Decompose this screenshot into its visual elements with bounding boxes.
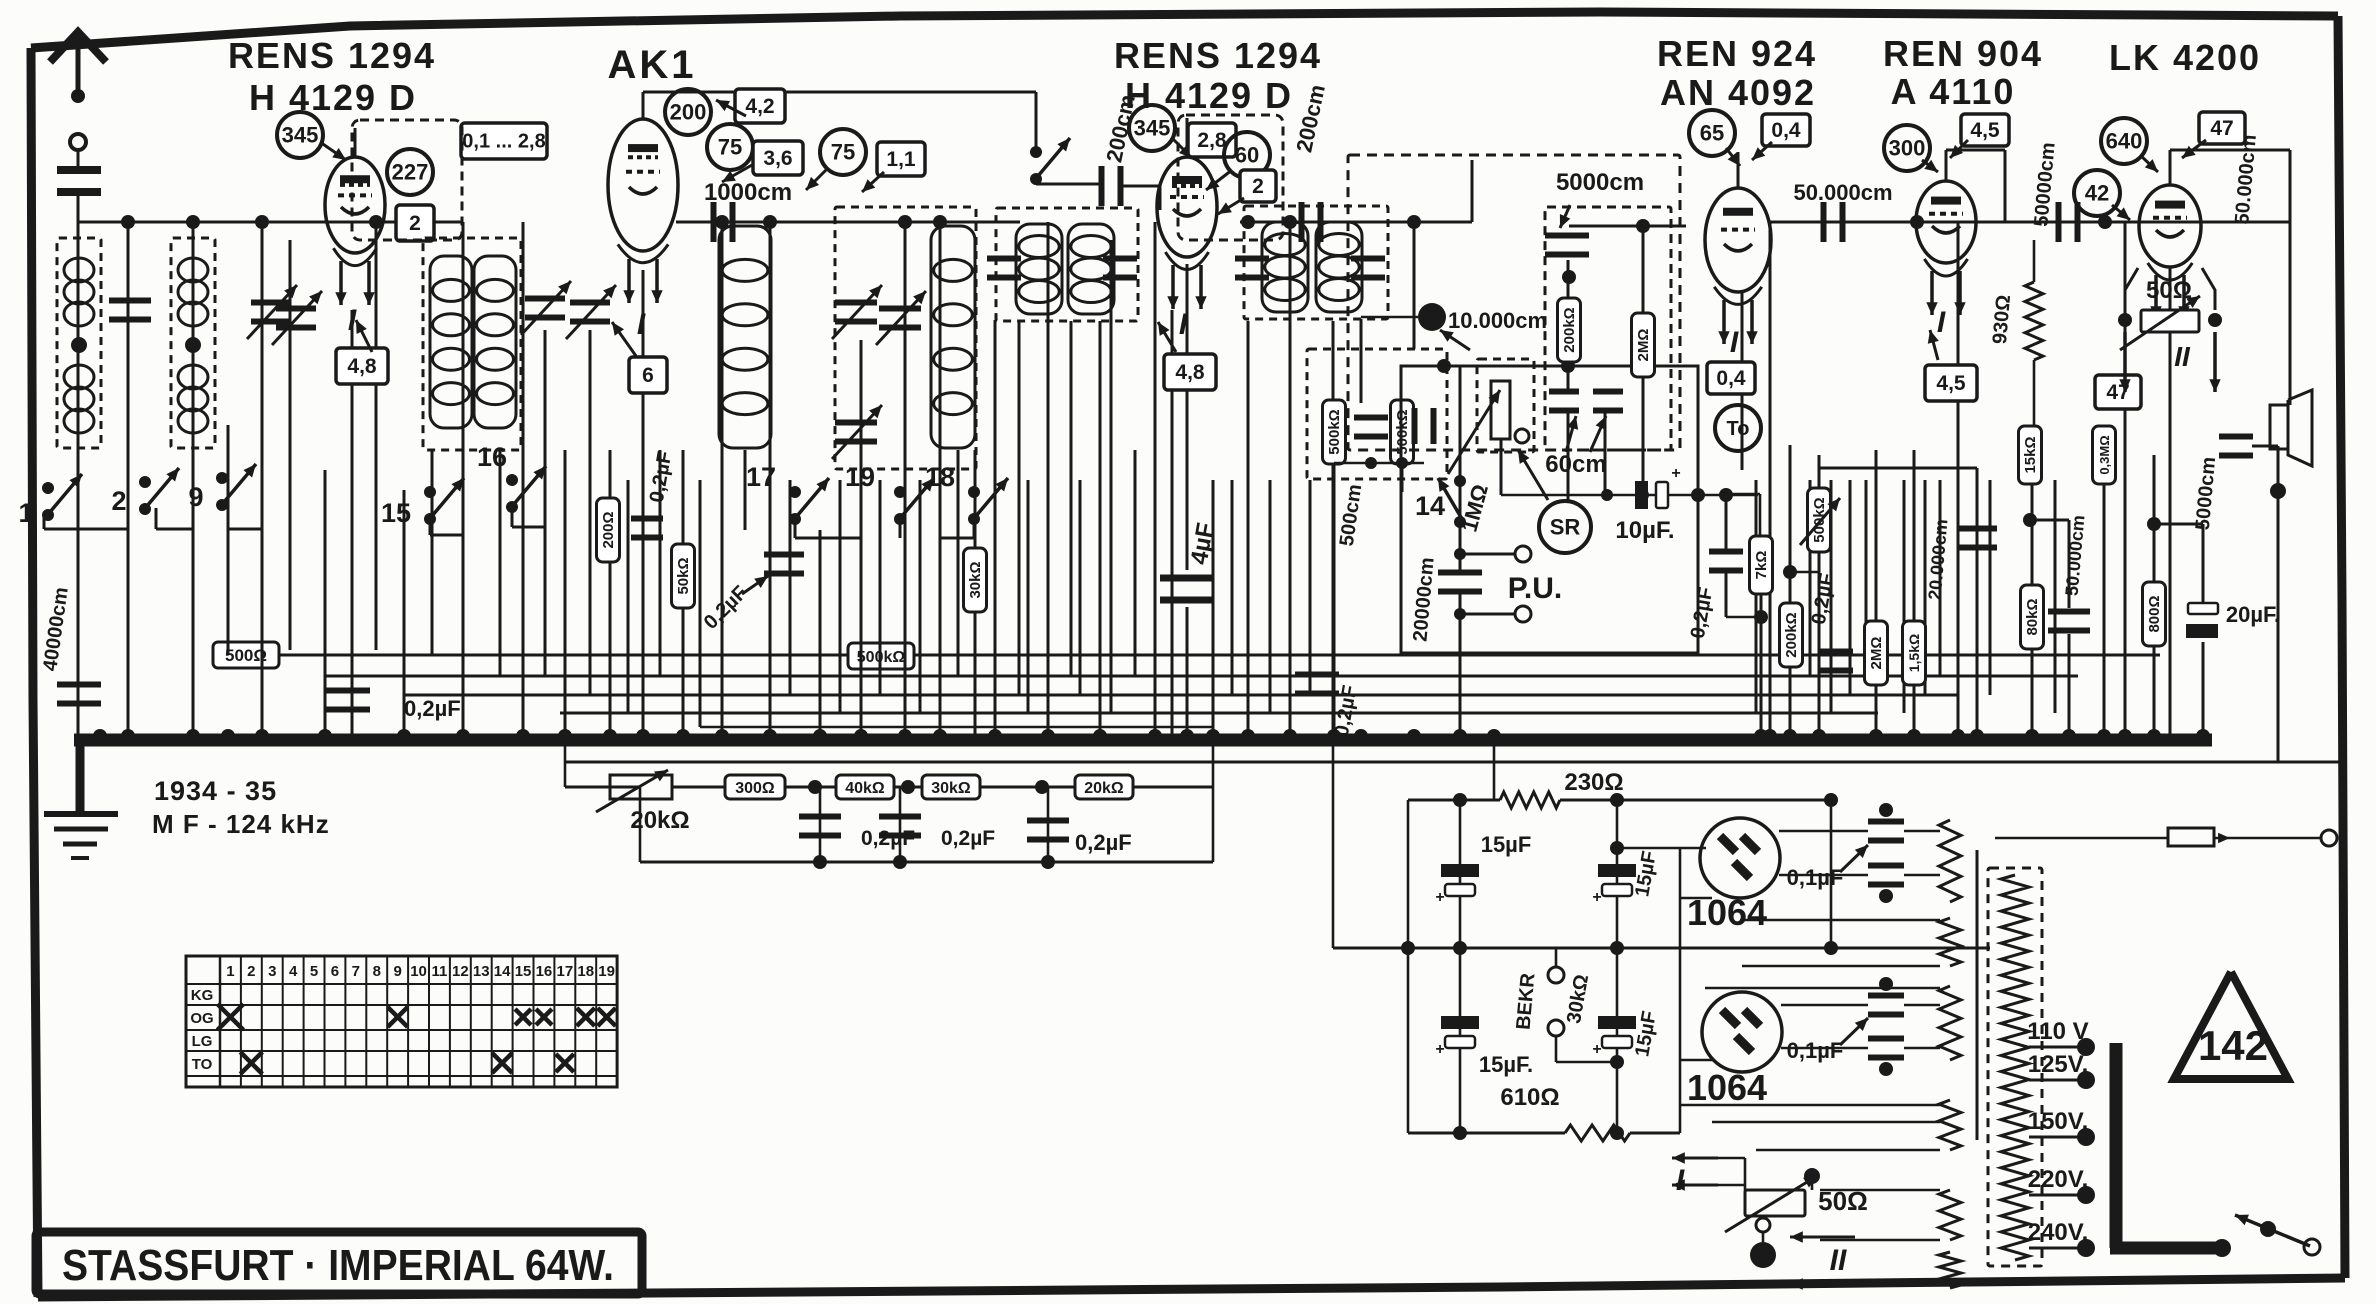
svg-text:+: + <box>1592 1041 1601 1058</box>
svg-text:4,5: 4,5 <box>1936 372 1966 395</box>
svg-text:30kΩ: 30kΩ <box>967 561 984 598</box>
svg-text:345: 345 <box>282 122 319 147</box>
svg-text:+: + <box>1592 889 1601 906</box>
svg-text:1934 - 35: 1934 - 35 <box>154 776 277 806</box>
svg-text:TO: TO <box>192 1056 213 1073</box>
svg-text:4,5: 4,5 <box>1970 119 2000 142</box>
svg-text:9: 9 <box>188 482 203 512</box>
svg-text:9: 9 <box>393 963 401 980</box>
svg-text:LK 4200: LK 4200 <box>2109 37 2261 78</box>
svg-text:REN 924: REN 924 <box>1657 33 1817 74</box>
svg-text:800Ω: 800Ω <box>2146 595 2163 632</box>
svg-text:16: 16 <box>477 442 507 472</box>
svg-text:75: 75 <box>718 134 742 159</box>
svg-text:150V.: 150V. <box>2028 1108 2089 1135</box>
svg-text:50Ω: 50Ω <box>2146 277 2192 304</box>
svg-text:AK1: AK1 <box>607 43 696 87</box>
svg-text:125V.: 125V. <box>2028 1051 2089 1078</box>
svg-text:2: 2 <box>1252 175 1264 198</box>
svg-text:0,2µF: 0,2µF <box>941 827 995 850</box>
svg-text:240V.: 240V. <box>2028 1219 2089 1246</box>
svg-text:I: I <box>1179 308 1188 341</box>
svg-text:18: 18 <box>577 963 594 980</box>
svg-text:KG: KG <box>191 987 214 1004</box>
svg-text:8: 8 <box>373 963 381 980</box>
svg-text:5: 5 <box>310 963 318 980</box>
svg-text:65: 65 <box>1700 120 1724 145</box>
svg-text:640: 640 <box>2106 128 2143 153</box>
svg-text:1,1: 1,1 <box>886 148 916 171</box>
svg-text:75: 75 <box>831 139 855 164</box>
svg-text:10µF.: 10µF. <box>1615 517 1674 544</box>
svg-text:200kΩ: 200kΩ <box>1783 612 1800 657</box>
svg-text:500kΩ: 500kΩ <box>1326 409 1343 454</box>
svg-text:50Ω: 50Ω <box>1818 1186 1868 1216</box>
svg-text:17: 17 <box>557 963 574 980</box>
svg-text:+: + <box>1435 1041 1444 1058</box>
svg-text:30kΩ: 30kΩ <box>931 780 971 797</box>
svg-text:11: 11 <box>432 963 448 980</box>
svg-text:6: 6 <box>331 963 339 980</box>
svg-text:300Ω: 300Ω <box>735 780 775 797</box>
svg-text:AN 4092: AN 4092 <box>1660 72 1816 113</box>
svg-text:930Ω: 930Ω <box>1989 294 2015 345</box>
svg-text:II: II <box>1830 1244 1847 1277</box>
svg-text:200: 200 <box>670 99 707 124</box>
svg-text:H 4129 D: H 4129 D <box>249 77 417 118</box>
svg-text:P.U.: P.U. <box>1508 572 1562 605</box>
svg-text:345: 345 <box>1134 115 1171 140</box>
svg-text:0,4: 0,4 <box>1716 367 1746 390</box>
svg-text:M F - 124 kHz: M F - 124 kHz <box>152 809 330 839</box>
svg-text:15kΩ: 15kΩ <box>2022 436 2039 473</box>
svg-text:40kΩ: 40kΩ <box>845 780 885 797</box>
svg-text:13: 13 <box>473 963 490 980</box>
svg-text:17: 17 <box>746 462 776 492</box>
svg-text:4,8: 4,8 <box>347 355 377 378</box>
svg-text:0,2µF: 0,2µF <box>861 827 915 850</box>
svg-text:1064: 1064 <box>1687 1067 1767 1108</box>
svg-text:1,5kΩ: 1,5kΩ <box>1906 634 1922 672</box>
svg-text:REN 904: REN 904 <box>1883 33 2043 74</box>
svg-text:15: 15 <box>515 963 532 980</box>
svg-text:2: 2 <box>111 486 126 516</box>
svg-text:7kΩ: 7kΩ <box>1753 551 1770 580</box>
svg-text:STASSFURT · IMPERIAL 64W.: STASSFURT · IMPERIAL 64W. <box>62 1241 614 1290</box>
svg-text:2MΩ: 2MΩ <box>1868 637 1885 670</box>
svg-text:18: 18 <box>925 462 955 492</box>
svg-text:47: 47 <box>2210 117 2233 140</box>
svg-text:4,8: 4,8 <box>1175 361 1205 384</box>
svg-text:0,3MΩ: 0,3MΩ <box>2097 435 2112 474</box>
svg-text:15: 15 <box>381 498 411 528</box>
svg-text:20µF.: 20µF. <box>2226 602 2280 627</box>
svg-text:2: 2 <box>409 212 421 235</box>
svg-text:1: 1 <box>18 498 33 528</box>
svg-text:+: + <box>1671 465 1680 482</box>
svg-text:0,1 ... 2,8: 0,1 ... 2,8 <box>462 131 545 153</box>
svg-text:15µF: 15µF <box>1481 832 1532 857</box>
svg-text:610Ω: 610Ω <box>1500 1084 1559 1111</box>
svg-text:5000cm: 5000cm <box>1556 169 1644 196</box>
svg-text:OG: OG <box>190 1010 213 1027</box>
svg-text:LG: LG <box>192 1033 213 1050</box>
svg-text:110 V: 110 V <box>2027 1018 2088 1045</box>
svg-text:19: 19 <box>845 462 875 492</box>
svg-text:I: I <box>1730 326 1739 359</box>
svg-text:10.000cm: 10.000cm <box>1448 308 1547 333</box>
svg-text:I: I <box>1937 306 1946 339</box>
svg-text:3: 3 <box>268 963 276 980</box>
svg-text:7: 7 <box>352 963 360 980</box>
svg-text:0,2µF: 0,2µF <box>404 696 461 721</box>
svg-text:RENS 1294: RENS 1294 <box>228 35 436 76</box>
svg-text:4,2: 4,2 <box>745 95 774 118</box>
svg-text:6: 6 <box>642 364 654 387</box>
svg-text:0,1µF: 0,1µF <box>1787 865 1844 890</box>
svg-text:0,1µF: 0,1µF <box>1787 1038 1844 1063</box>
svg-text:2MΩ: 2MΩ <box>1635 329 1652 362</box>
svg-text:H 4129 D: H 4129 D <box>1125 75 1293 116</box>
svg-text:230Ω: 230Ω <box>1564 769 1623 796</box>
svg-text:50kΩ: 50kΩ <box>675 557 692 594</box>
svg-text:142: 142 <box>2198 1022 2268 1069</box>
svg-text:I: I <box>1676 1164 1685 1197</box>
svg-text:220V.: 220V. <box>2028 1166 2089 1193</box>
svg-text:2: 2 <box>247 963 255 980</box>
svg-text:To: To <box>1727 418 1750 440</box>
svg-text:14: 14 <box>494 963 511 980</box>
svg-text:60: 60 <box>1235 142 1259 167</box>
svg-text:1: 1 <box>226 963 234 980</box>
svg-text:300: 300 <box>1889 135 1926 160</box>
svg-text:0,2µF: 0,2µF <box>1075 830 1132 855</box>
svg-text:II: II <box>2174 341 2191 372</box>
svg-text:16: 16 <box>536 963 553 980</box>
svg-text:4: 4 <box>289 963 298 980</box>
svg-text:SR: SR <box>1550 514 1581 539</box>
svg-text:80kΩ: 80kΩ <box>2024 598 2041 635</box>
svg-text:15µF.: 15µF. <box>1479 1052 1533 1077</box>
svg-text:0,4: 0,4 <box>1771 119 1801 142</box>
svg-text:1000cm: 1000cm <box>704 179 792 206</box>
svg-text:+: + <box>1435 889 1444 906</box>
svg-text:42: 42 <box>2085 180 2109 205</box>
svg-text:60cm: 60cm <box>1545 451 1606 478</box>
svg-text:14: 14 <box>1415 491 1445 521</box>
svg-text:200Ω: 200Ω <box>600 511 617 548</box>
svg-text:12: 12 <box>452 963 469 980</box>
svg-text:3,6: 3,6 <box>763 147 792 170</box>
svg-text:19: 19 <box>598 963 615 980</box>
svg-text:A 4110: A 4110 <box>1891 71 2016 112</box>
svg-text:2,8: 2,8 <box>1197 129 1227 152</box>
svg-text:10: 10 <box>410 963 427 980</box>
svg-text:50.000cm: 50.000cm <box>1793 180 1892 205</box>
svg-text:RENS 1294: RENS 1294 <box>1114 35 1322 76</box>
svg-text:200kΩ: 200kΩ <box>1561 307 1578 352</box>
svg-text:I: I <box>637 308 646 341</box>
svg-text:227: 227 <box>392 159 429 184</box>
svg-text:20kΩ: 20kΩ <box>1084 780 1124 797</box>
